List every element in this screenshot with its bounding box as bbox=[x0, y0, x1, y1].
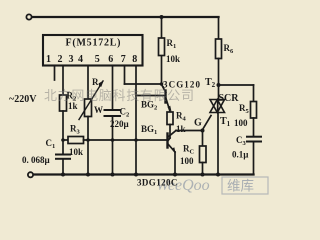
svg-text:4: 4 bbox=[78, 54, 83, 65]
svg-text:维库: 维库 bbox=[227, 179, 254, 194]
svg-text:0.1µ: 0.1µ bbox=[232, 150, 249, 160]
svg-text:1k: 1k bbox=[176, 124, 186, 134]
svg-text:G: G bbox=[194, 118, 202, 129]
svg-text:220µ: 220µ bbox=[110, 119, 130, 129]
svg-text:~220V: ~220V bbox=[9, 94, 37, 105]
svg-text:W: W bbox=[94, 105, 103, 115]
svg-text:1k: 1k bbox=[68, 101, 78, 111]
svg-text:8: 8 bbox=[132, 54, 137, 65]
svg-text:3DG120C: 3DG120C bbox=[137, 178, 178, 188]
svg-text:10k: 10k bbox=[166, 54, 180, 64]
svg-text:5: 5 bbox=[95, 54, 100, 65]
svg-text:2: 2 bbox=[58, 54, 63, 65]
svg-text:10k: 10k bbox=[69, 147, 83, 157]
svg-text:3: 3 bbox=[69, 54, 74, 65]
svg-text:SCR: SCR bbox=[219, 93, 240, 104]
svg-text:100: 100 bbox=[234, 118, 248, 128]
svg-text:F(M5172L): F(M5172L) bbox=[66, 38, 121, 49]
svg-text:7: 7 bbox=[121, 54, 126, 65]
svg-text:6: 6 bbox=[108, 54, 113, 65]
svg-text:0. 068µ: 0. 068µ bbox=[22, 155, 51, 165]
svg-text:3CG120: 3CG120 bbox=[163, 80, 201, 90]
svg-text:1: 1 bbox=[46, 54, 51, 65]
svg-text:100: 100 bbox=[180, 156, 194, 166]
